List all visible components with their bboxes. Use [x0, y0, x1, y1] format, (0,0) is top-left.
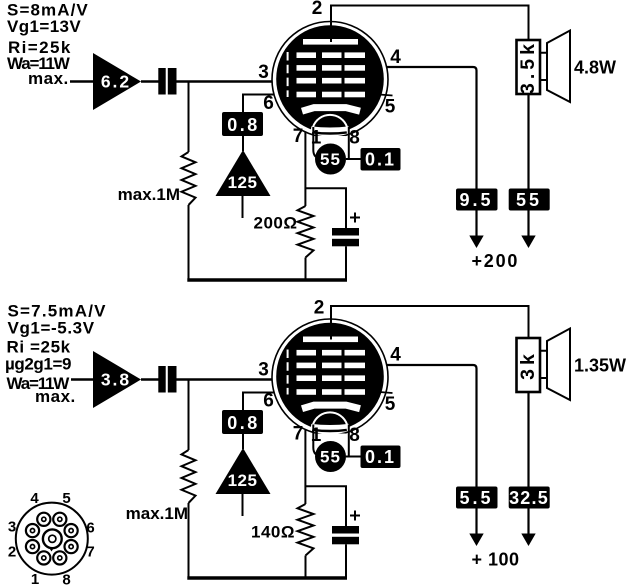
svg-text:5: 5	[62, 490, 70, 507]
box 32.5	[509, 487, 550, 509]
svg-text:max.: max.	[35, 387, 76, 406]
ground rail (bottom wire)	[187, 576, 347, 580]
voltage arrow 125	[216, 150, 271, 196]
socket pin 2 contact	[26, 540, 39, 553]
grid wire to pin 3	[177, 80, 291, 83]
svg-text:8: 8	[62, 572, 70, 587]
svg-text:+200: +200	[472, 251, 520, 271]
svg-text:+ 100: + 100	[472, 550, 520, 570]
arrow below 32.5	[527, 509, 529, 538]
wire triangle to coupling cap	[141, 80, 159, 83]
svg-text:200Ω: 200Ω	[254, 213, 298, 232]
coupling capacitor	[158, 68, 165, 95]
ground rail (bottom wire)	[187, 278, 347, 282]
output load box 3.5k	[517, 40, 541, 94]
spigot key notch	[49, 547, 54, 551]
voltage arrow 125	[216, 448, 271, 494]
svg-text:125: 125	[228, 471, 258, 490]
svg-text:6.2: 6.2	[101, 72, 131, 92]
electrolytic bypass capacitor	[332, 526, 359, 534]
svg-text:4: 4	[30, 490, 39, 507]
grid wire to pin 3	[177, 378, 291, 381]
cathode resistor 200Ω	[298, 206, 314, 258]
svg-text:µg2g1=9: µg2g1=9	[5, 355, 71, 374]
socket pin 5 contact	[53, 513, 66, 526]
svg-text:140Ω: 140Ω	[251, 523, 295, 542]
screen grid wire pin 4	[370, 365, 477, 487]
pentode V1	[258, 22, 401, 175]
output load box 3k	[517, 338, 541, 392]
wire load to current box 55	[527, 94, 529, 189]
svg-text:3: 3	[8, 519, 16, 536]
anode wire pin2 to output transformer	[331, 306, 529, 338]
svg-text:max.1M: max.1M	[126, 504, 188, 523]
arrow below 5.5	[475, 509, 477, 538]
cathode wire pin 7	[304, 121, 306, 206]
pentode V2	[258, 319, 401, 472]
branch to bypass capacitor	[305, 486, 346, 526]
input amplifier triangle 6.2	[93, 53, 141, 110]
svg-text:55: 55	[516, 190, 542, 210]
screen grid wire pin 4	[370, 67, 477, 189]
socket pin 4 contact	[37, 513, 50, 526]
svg-text:9.5: 9.5	[459, 190, 493, 210]
svg-text:32.5: 32.5	[509, 488, 549, 508]
socket pin 6 contact	[65, 524, 78, 537]
cathode resistor 140Ω	[298, 504, 314, 556]
svg-text:Vg1=-5.3V: Vg1=-5.3V	[8, 318, 95, 337]
resistor max.1M	[182, 450, 196, 503]
svg-text:max.1M: max.1M	[118, 185, 180, 204]
svg-text:Vg1=13V: Vg1=13V	[7, 17, 81, 36]
cathode wire pin 7	[304, 419, 306, 504]
box 9.5	[456, 189, 498, 211]
box 0.8	[222, 112, 263, 136]
svg-text:125: 125	[228, 173, 258, 192]
wire pin6 to 0.8 box	[243, 393, 274, 412]
svg-text:2: 2	[314, 298, 325, 319]
box 5.5	[456, 487, 498, 509]
svg-text:3.8: 3.8	[101, 370, 131, 390]
loudspeaker	[540, 53, 547, 80]
resistor max.1M	[182, 152, 196, 205]
socket pin 3 contact	[26, 524, 39, 537]
arrow below 55	[527, 211, 529, 240]
wire triangle to coupling cap	[141, 378, 159, 381]
svg-text:6: 6	[86, 520, 94, 537]
input amplifier triangle 3.8	[93, 351, 141, 408]
grid leak wire down	[188, 82, 190, 153]
input wire	[70, 80, 93, 83]
svg-text:3.5k: 3.5k	[517, 40, 539, 94]
socket pin 1 contact	[37, 551, 50, 564]
socket centre spigot	[43, 529, 62, 548]
svg-text:7: 7	[86, 544, 94, 561]
box 55	[509, 189, 550, 211]
electrolytic bypass capacitor	[332, 228, 359, 236]
wire pin6 to 0.8 box	[243, 95, 274, 114]
arrow below 9.5	[475, 211, 477, 240]
socket pin 8 contact	[53, 551, 66, 564]
input wire	[71, 378, 93, 381]
loudspeaker	[540, 351, 547, 378]
svg-text:2: 2	[312, 0, 323, 19]
wire 0.8 box to 125 arrow	[242, 434, 244, 449]
svg-text:2: 2	[8, 544, 16, 561]
coupling capacitor	[158, 366, 165, 393]
svg-text:5.5: 5.5	[459, 488, 493, 508]
svg-text:1: 1	[31, 571, 39, 587]
grid leak wire down	[188, 380, 190, 451]
svg-text:max.: max.	[28, 69, 69, 88]
branch to bypass capacitor	[305, 188, 346, 228]
anode wire pin2 to output transformer	[331, 6, 529, 41]
svg-text:0.8: 0.8	[227, 115, 260, 135]
wire load to current box 32.5	[527, 392, 529, 487]
svg-text:3k: 3k	[517, 350, 539, 380]
svg-text:1.35W: 1.35W	[574, 356, 626, 376]
svg-text:0.8: 0.8	[227, 413, 260, 433]
socket pin 7 contact	[65, 540, 78, 553]
box 0.8	[222, 410, 263, 434]
svg-text:4.8W: 4.8W	[574, 58, 616, 78]
octal socket base view	[16, 503, 88, 575]
wire 0.8 box to 125 arrow	[242, 136, 244, 151]
